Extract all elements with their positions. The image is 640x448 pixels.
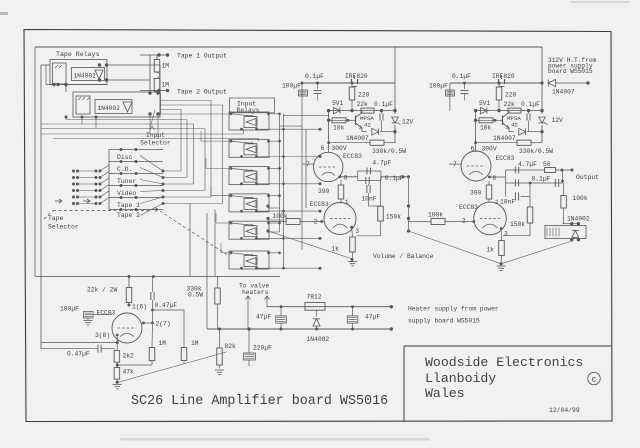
svg-text:1k: 1k: [486, 247, 494, 254]
svg-text:150k: 150k: [386, 214, 401, 221]
svg-text:Output: Output: [576, 174, 599, 181]
svg-text:82k: 82k: [225, 343, 237, 350]
svg-text:ECC83: ECC83: [343, 153, 362, 160]
svg-text:220: 220: [505, 92, 517, 99]
svg-text:2: 2: [462, 218, 466, 225]
svg-text:100µF: 100µF: [60, 306, 79, 313]
svg-text:0.1µF: 0.1µF: [452, 73, 471, 80]
svg-text:0.1µF: 0.1µF: [385, 175, 404, 182]
svg-text:Volume / Balance: Volume / Balance: [373, 253, 434, 260]
svg-text:1N4007: 1N4007: [346, 135, 369, 142]
svg-text:1N4007: 1N4007: [552, 89, 575, 96]
svg-text:board WS5015: board WS5015: [548, 68, 593, 75]
svg-text:390: 390: [318, 188, 330, 195]
svg-text:1M: 1M: [162, 63, 170, 70]
svg-text:2k2: 2k2: [123, 353, 135, 360]
svg-text:1: 1: [495, 199, 499, 206]
svg-text:heaters: heaters: [242, 289, 269, 296]
svg-text:56: 56: [543, 161, 551, 168]
svg-text:12/04/99: 12/04/99: [549, 407, 580, 414]
svg-text:12V: 12V: [402, 119, 414, 126]
svg-text:3(8): 3(8): [95, 332, 110, 339]
svg-text:C.D.: C.D.: [117, 166, 132, 173]
svg-text:47µF: 47µF: [256, 314, 271, 321]
svg-text:10nF: 10nF: [361, 196, 376, 203]
svg-text:12V: 12V: [552, 117, 564, 124]
svg-text:Tuner: Tuner: [117, 178, 136, 185]
svg-text:3: 3: [504, 231, 508, 238]
svg-text:0.1µF: 0.1µF: [374, 101, 393, 108]
svg-text:1(6): 1(6): [132, 304, 147, 311]
svg-text:Tape 1 Output: Tape 1 Output: [177, 53, 227, 60]
svg-text:Tape 2 Output: Tape 2 Output: [177, 89, 227, 96]
svg-text:1M: 1M: [162, 82, 170, 89]
svg-text:2(7): 2(7): [156, 321, 171, 328]
svg-text:Selector: Selector: [48, 224, 79, 231]
svg-text:1N4002: 1N4002: [567, 216, 590, 223]
svg-text:220: 220: [358, 92, 370, 99]
svg-text:100µF: 100µF: [429, 83, 448, 90]
svg-text:100k: 100k: [573, 195, 588, 202]
svg-text:1k: 1k: [331, 246, 339, 253]
svg-text:1N4002: 1N4002: [98, 105, 121, 112]
svg-text:ECC83: ECC83: [459, 204, 478, 211]
svg-text:C: C: [592, 377, 597, 385]
svg-text:330k/0.5W: 330k/0.5W: [372, 148, 406, 155]
svg-text:42: 42: [511, 122, 518, 129]
svg-text:220µF: 220µF: [253, 345, 272, 352]
svg-text:0.5W: 0.5W: [188, 292, 203, 299]
svg-text:22k / 2W: 22k / 2W: [87, 287, 117, 294]
svg-text:SC26 Line Amplifier board WS50: SC26 Line Amplifier board WS5016: [131, 394, 388, 409]
svg-text:ECC83: ECC83: [310, 201, 329, 208]
svg-text:8: 8: [344, 175, 348, 182]
svg-text:Llanboidy: Llanboidy: [425, 371, 496, 386]
svg-text:100µF: 100µF: [282, 83, 301, 90]
svg-text:0.47µF: 0.47µF: [155, 302, 178, 309]
svg-text:1: 1: [345, 199, 349, 206]
svg-text:0.1µF: 0.1µF: [532, 176, 551, 183]
svg-text:1M: 1M: [159, 340, 167, 347]
svg-text:5V1: 5V1: [332, 100, 344, 107]
svg-text:10k: 10k: [480, 125, 492, 132]
svg-text:Disc: Disc: [117, 154, 133, 161]
svg-text:Tape 2: Tape 2: [117, 212, 140, 219]
svg-text:22k: 22k: [504, 101, 516, 108]
svg-text:IRF820: IRF820: [345, 73, 368, 80]
svg-text:390: 390: [470, 190, 482, 197]
svg-text:7812: 7812: [307, 294, 322, 301]
svg-text:4.7µF: 4.7µF: [518, 161, 537, 168]
svg-text:Woodside Electronics: Woodside Electronics: [425, 355, 583, 370]
svg-text:ECC83: ECC83: [496, 155, 515, 162]
svg-text:150k: 150k: [510, 221, 525, 228]
svg-text:7: 7: [306, 161, 310, 168]
svg-text:1N4002: 1N4002: [307, 336, 330, 343]
svg-text:Wales: Wales: [425, 386, 465, 401]
svg-text:Tape Relays: Tape Relays: [56, 51, 100, 58]
svg-text:47k: 47k: [123, 369, 135, 376]
svg-text:42: 42: [364, 122, 371, 129]
svg-text:0.47µF: 0.47µF: [67, 351, 90, 358]
svg-text:Selector: Selector: [140, 140, 171, 147]
svg-text:8: 8: [492, 175, 496, 182]
svg-text:Heater supply from power: Heater supply from power: [408, 306, 499, 313]
svg-text:330k/0.5W: 330k/0.5W: [519, 148, 553, 155]
svg-text:Relays: Relays: [237, 107, 260, 114]
svg-text:47µF: 47µF: [365, 314, 380, 321]
svg-text:6: 6: [321, 145, 325, 152]
svg-text:Input: Input: [146, 132, 165, 139]
svg-text:1N4007: 1N4007: [493, 135, 516, 142]
svg-text:Tape 1: Tape 1: [117, 202, 140, 209]
svg-text:0.1µF: 0.1µF: [521, 101, 540, 108]
svg-text:0.1µF: 0.1µF: [305, 73, 324, 80]
svg-text:300V: 300V: [332, 145, 347, 152]
svg-text:22k: 22k: [357, 101, 369, 108]
svg-text:4.7µF: 4.7µF: [372, 160, 391, 167]
svg-text:ECC83: ECC83: [97, 310, 116, 317]
svg-text:1M: 1M: [191, 340, 199, 347]
svg-text:3: 3: [355, 228, 359, 235]
svg-text:IRF820: IRF820: [492, 73, 515, 80]
svg-text:supply board WS5015: supply board WS5015: [408, 318, 480, 325]
svg-text:Tape: Tape: [48, 215, 64, 222]
svg-text:Video: Video: [117, 190, 136, 197]
svg-text:1N4002: 1N4002: [74, 73, 97, 80]
svg-text:100k: 100k: [273, 213, 288, 220]
svg-text:5V1: 5V1: [479, 100, 491, 107]
svg-text:7: 7: [453, 161, 457, 168]
svg-text:10k: 10k: [333, 125, 345, 132]
svg-text:10nF: 10nF: [500, 199, 515, 206]
svg-text:100k: 100k: [428, 212, 443, 219]
svg-text:300V: 300V: [482, 146, 497, 153]
